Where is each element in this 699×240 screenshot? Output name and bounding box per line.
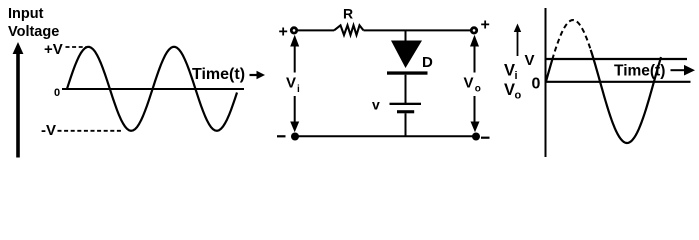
resistor R bbox=[334, 25, 364, 35]
node: circuit top-left terminal bbox=[290, 26, 298, 34]
Vi measurement arrow (down head) bbox=[290, 122, 299, 133]
arrow after Time(t) (output) bbox=[671, 65, 696, 76]
svg-text:Input: Input bbox=[8, 6, 44, 22]
svg-text:Time(t): Time(t) bbox=[192, 66, 245, 83]
wire: diode to battery bbox=[405, 75, 407, 103]
output waveform rising start (solid) bbox=[546, 60, 552, 82]
svg-text:v: v bbox=[372, 97, 380, 113]
svg-text:V: V bbox=[525, 52, 535, 69]
wire: diode branch from top rail bbox=[405, 30, 407, 41]
node: circuit top-right terminal bbox=[470, 26, 478, 34]
svg-text:+: + bbox=[481, 17, 490, 34]
wire: top rail left segment bbox=[298, 29, 334, 31]
Vo measurement arrow (down head) bbox=[471, 122, 480, 133]
time axis (output) bbox=[546, 81, 691, 83]
output waveform negative half (solid) bbox=[591, 50, 661, 143]
input peak shown dashed (clipped) bbox=[552, 20, 590, 60]
svg-text:R: R bbox=[343, 6, 353, 22]
Vo wire upper shaft bbox=[474, 45, 476, 73]
label - (bottom-left) bbox=[277, 135, 286, 137]
arrow after Time(t) bbox=[250, 71, 266, 79]
svg-text:0: 0 bbox=[54, 87, 60, 99]
Vo wire lower shaft bbox=[474, 96, 476, 125]
svg-text:Time(t): Time(t) bbox=[614, 62, 665, 79]
node: circuit bottom-right terminal bbox=[472, 133, 480, 141]
svg-text:-V: -V bbox=[41, 122, 56, 139]
Vi measurement arrow (up head) bbox=[290, 35, 299, 47]
output voltage axis arrow (thin vertical) bbox=[514, 24, 521, 57]
svg-text:V: V bbox=[464, 75, 474, 92]
dashed level line at -V bbox=[58, 130, 123, 132]
svg-text:V: V bbox=[504, 62, 515, 80]
wire: top rail right segment bbox=[364, 29, 475, 31]
svg-text:o: o bbox=[515, 90, 522, 102]
battery V (long plate) bbox=[390, 103, 422, 105]
dashed level line at +V bbox=[66, 46, 87, 48]
diode D (cathode-down triangle) bbox=[391, 41, 422, 69]
svg-text:D: D bbox=[422, 54, 433, 71]
input voltage axis arrow (thick vertical) bbox=[13, 42, 24, 158]
svg-text:+V: +V bbox=[44, 41, 63, 58]
time axis (input) bbox=[62, 88, 244, 90]
battery V (short plate) bbox=[397, 110, 414, 113]
svg-text:+: + bbox=[279, 24, 288, 41]
Vi wire lower shaft bbox=[294, 96, 296, 125]
input sine waveform bbox=[67, 47, 237, 131]
Vo measurement arrow (up head) bbox=[470, 35, 479, 47]
wire: bottom rail bbox=[295, 135, 476, 137]
svg-text:o: o bbox=[475, 84, 481, 95]
diode cathode bar bbox=[387, 71, 428, 74]
Vi wire upper shaft bbox=[294, 45, 296, 73]
svg-text:V: V bbox=[286, 75, 296, 92]
label - (bottom-right) bbox=[481, 137, 490, 139]
wire: battery to bottom rail bbox=[405, 113, 407, 136]
node: circuit bottom-left terminal bbox=[291, 133, 299, 141]
svg-text:V: V bbox=[504, 81, 515, 99]
svg-text:i: i bbox=[297, 84, 300, 95]
svg-text:Voltage: Voltage bbox=[8, 24, 59, 40]
svg-text:0: 0 bbox=[532, 76, 541, 93]
clip level line V bbox=[546, 58, 688, 60]
output voltage axis (vertical) bbox=[545, 8, 547, 157]
